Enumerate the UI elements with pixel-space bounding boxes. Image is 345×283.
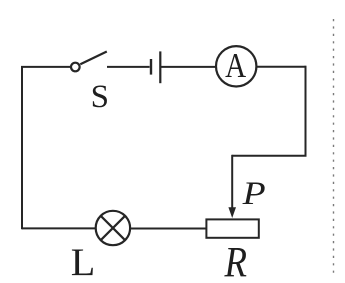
svg-text:L: L <box>71 241 96 283</box>
wire: top-left horizontal to switch <box>21 66 70 68</box>
wire: horizontal to slider <box>232 155 306 157</box>
wire: bottom-left to lamp <box>22 227 96 229</box>
slider arrow head (points to P contact) <box>228 207 236 218</box>
wire: left vertical <box>21 66 23 229</box>
dashed boundary line <box>333 19 335 275</box>
wire: right vertical <box>305 66 307 156</box>
switch S <box>71 63 80 72</box>
wire: slider vertical <box>231 155 233 209</box>
wire: ammeter to top-right corner <box>256 66 305 68</box>
svg-text:A: A <box>225 46 247 85</box>
svg-text:P: P <box>242 176 266 212</box>
wire: lamp to rheostat <box>130 228 207 230</box>
wire: switch to battery <box>107 66 150 68</box>
svg-text:S: S <box>91 79 109 115</box>
ammeter A <box>216 46 256 86</box>
battery cell <box>150 59 152 75</box>
svg-text:R: R <box>224 239 247 283</box>
rheostat R body <box>206 219 258 237</box>
lamp L <box>96 211 130 245</box>
wire: battery to ammeter <box>161 66 216 68</box>
